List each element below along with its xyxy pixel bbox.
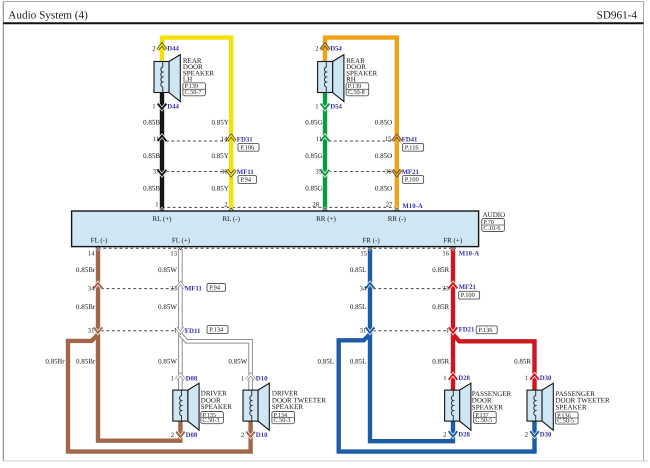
svg-text:FD11: FD11 xyxy=(185,328,201,335)
svg-text:RL (+): RL (+) xyxy=(152,215,172,223)
svg-text:C.50-3: C.50-3 xyxy=(202,417,219,424)
svg-text:SPEAKER: SPEAKER xyxy=(201,403,232,411)
svg-text:0.85W: 0.85W xyxy=(158,358,177,366)
svg-text:0.85B: 0.85B xyxy=(143,152,160,160)
svg-text:D54: D54 xyxy=(330,46,342,53)
svg-text:MF21: MF21 xyxy=(402,169,420,176)
svg-text:0.85R: 0.85R xyxy=(514,358,531,366)
svg-text:0.85L: 0.85L xyxy=(350,303,367,311)
svg-text:0.85R: 0.85R xyxy=(432,303,449,311)
svg-text:0.85L: 0.85L xyxy=(317,358,334,366)
svg-text:0.85W: 0.85W xyxy=(158,266,177,274)
svg-text:C.10-6: C.10-6 xyxy=(483,225,500,232)
svg-text:1: 1 xyxy=(315,104,318,111)
svg-text:C.50-3: C.50-3 xyxy=(274,417,291,424)
svg-text:0.85L: 0.85L xyxy=(350,266,367,274)
svg-text:FD31: FD31 xyxy=(237,136,253,143)
svg-text:SPEAKER: SPEAKER xyxy=(556,403,587,411)
svg-text:P.106: P.106 xyxy=(240,144,254,151)
svg-text:RR (+): RR (+) xyxy=(316,215,336,223)
svg-text:0.85G: 0.85G xyxy=(305,118,322,126)
svg-text:M10-A: M10-A xyxy=(402,203,422,210)
svg-text:D28: D28 xyxy=(458,432,470,439)
svg-text:RR (-): RR (-) xyxy=(388,215,407,223)
svg-text:0.85Br: 0.85Br xyxy=(45,358,65,366)
svg-text:13: 13 xyxy=(170,251,177,258)
svg-text:34: 34 xyxy=(88,285,95,292)
svg-text:27: 27 xyxy=(386,201,393,208)
svg-text:2: 2 xyxy=(525,432,528,439)
svg-text:P.94: P.94 xyxy=(209,284,221,291)
svg-text:D08: D08 xyxy=(186,432,198,439)
svg-text:2: 2 xyxy=(315,46,318,53)
svg-text:C.50-7: C.50-7 xyxy=(185,89,202,96)
svg-text:15: 15 xyxy=(360,251,367,258)
svg-text:1: 1 xyxy=(174,328,177,335)
svg-text:SD961-4: SD961-4 xyxy=(597,9,638,21)
svg-text:MF11: MF11 xyxy=(237,169,255,176)
svg-text:33: 33 xyxy=(442,285,449,292)
svg-text:D30: D30 xyxy=(540,375,552,382)
svg-text:1: 1 xyxy=(443,375,446,382)
svg-text:P.134: P.134 xyxy=(209,327,224,334)
svg-text:0.85L: 0.85L xyxy=(350,358,367,366)
svg-text:FD21: FD21 xyxy=(459,326,475,333)
svg-text:0.85O: 0.85O xyxy=(375,118,392,126)
svg-text:C.50-8: C.50-8 xyxy=(348,89,365,96)
svg-text:2: 2 xyxy=(171,432,174,439)
svg-text:2: 2 xyxy=(443,432,446,439)
svg-text:MF21: MF21 xyxy=(459,284,477,291)
svg-text:0.85B: 0.85B xyxy=(143,118,160,126)
svg-text:0.85R: 0.85R xyxy=(432,358,449,366)
svg-text:36: 36 xyxy=(221,169,228,176)
svg-text:2: 2 xyxy=(224,201,227,208)
svg-text:1: 1 xyxy=(155,201,158,208)
svg-text:1: 1 xyxy=(446,328,449,335)
svg-text:0.85O: 0.85O xyxy=(375,184,392,192)
svg-text:P.94: P.94 xyxy=(240,177,252,184)
svg-text:34: 34 xyxy=(360,285,367,292)
svg-text:0.85G: 0.85G xyxy=(305,184,322,192)
svg-text:SPEAKER: SPEAKER xyxy=(272,403,303,411)
svg-text:P.100: P.100 xyxy=(461,292,475,299)
svg-text:FL (+): FL (+) xyxy=(172,236,191,244)
svg-text:2: 2 xyxy=(241,432,244,439)
svg-text:15: 15 xyxy=(385,136,392,143)
svg-text:FD41: FD41 xyxy=(402,136,418,143)
svg-text:33: 33 xyxy=(170,285,177,292)
svg-text:14: 14 xyxy=(221,136,228,143)
svg-text:C.50-5: C.50-5 xyxy=(475,417,492,424)
svg-text:FR (+): FR (+) xyxy=(443,236,463,244)
svg-text:Audio System (4): Audio System (4) xyxy=(8,9,88,21)
svg-text:0.85R: 0.85R xyxy=(432,266,449,274)
svg-text:14: 14 xyxy=(88,251,95,258)
svg-text:C.50-5: C.50-5 xyxy=(557,418,574,425)
svg-text:11: 11 xyxy=(316,136,322,143)
svg-text:31: 31 xyxy=(360,328,367,335)
svg-text:MF11: MF11 xyxy=(185,285,203,292)
svg-text:D54: D54 xyxy=(330,104,342,111)
svg-text:D28: D28 xyxy=(458,375,470,382)
svg-text:1: 1 xyxy=(152,104,155,111)
svg-text:P.116: P.116 xyxy=(405,144,419,151)
svg-text:0.85W: 0.85W xyxy=(158,303,177,311)
svg-text:0.85Y: 0.85Y xyxy=(211,184,228,192)
svg-text:31: 31 xyxy=(88,328,95,335)
svg-text:D44: D44 xyxy=(167,104,179,111)
svg-text:28: 28 xyxy=(312,201,319,208)
svg-text:P.100: P.100 xyxy=(405,177,419,184)
svg-text:SPEAKER: SPEAKER xyxy=(472,403,503,411)
svg-text:1: 1 xyxy=(241,376,244,383)
svg-text:0.85Y: 0.85Y xyxy=(211,118,228,126)
svg-text:M10-A: M10-A xyxy=(459,251,479,258)
svg-text:0.85Br: 0.85Br xyxy=(76,303,96,311)
svg-text:11: 11 xyxy=(153,136,159,143)
svg-text:0.85Y: 0.85Y xyxy=(211,152,228,160)
svg-text:36: 36 xyxy=(385,169,392,176)
svg-text:0.85G: 0.85G xyxy=(305,152,322,160)
svg-text:0.85Br: 0.85Br xyxy=(76,266,96,274)
svg-text:D30: D30 xyxy=(540,432,552,439)
svg-text:FL (-): FL (-) xyxy=(91,236,108,244)
svg-text:D44: D44 xyxy=(167,46,179,53)
svg-text:D10: D10 xyxy=(256,432,268,439)
svg-text:RL (-): RL (-) xyxy=(222,215,240,223)
svg-text:0.85O: 0.85O xyxy=(375,152,392,160)
svg-text:1: 1 xyxy=(171,376,174,383)
svg-text:D10: D10 xyxy=(256,376,268,383)
svg-text:16: 16 xyxy=(442,251,449,258)
svg-text:AUDIO: AUDIO xyxy=(483,211,506,219)
svg-text:0.85B: 0.85B xyxy=(143,184,160,192)
svg-text:37: 37 xyxy=(153,169,160,176)
svg-text:P.136: P.136 xyxy=(478,327,492,334)
svg-text:0.85W: 0.85W xyxy=(228,358,247,366)
svg-text:1: 1 xyxy=(525,375,528,382)
svg-text:2: 2 xyxy=(152,46,155,53)
svg-text:FR (-): FR (-) xyxy=(362,236,380,244)
svg-text:35: 35 xyxy=(315,169,322,176)
svg-text:D08: D08 xyxy=(186,376,198,383)
svg-text:0.85Br: 0.85Br xyxy=(76,358,96,366)
